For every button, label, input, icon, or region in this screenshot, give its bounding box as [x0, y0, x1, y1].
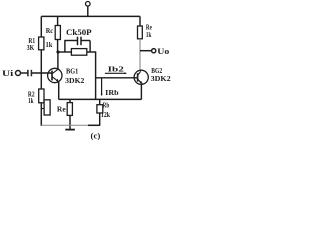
wire Rb bottom lead — [99, 113, 101, 125]
capacitor input left plate — [27, 70, 29, 77]
svg-text:Ib2: Ib2 — [108, 65, 124, 74]
svg-text:1k: 1k — [46, 40, 53, 49]
transistor BG2 — [134, 70, 148, 84]
svg-text:Uo: Uo — [157, 47, 169, 56]
wire right column (Re to BG2 collector, grey) — [139, 39, 141, 71]
wire capacitor branch right riser — [89, 41, 91, 53]
wire Ui to capacitor — [21, 72, 28, 74]
svg-text:Rc: Rc — [46, 26, 54, 35]
wire bottom rail right (dark) — [88, 124, 100, 126]
svg-text:3DK2: 3DK2 — [65, 76, 84, 85]
svg-text:(c): (c) — [91, 131, 101, 140]
svg-text:3DK2: 3DK2 — [151, 74, 171, 83]
wire Re top lead — [69, 99, 71, 102]
wire left column bottom (R2 to bottom rail) — [40, 103, 42, 126]
wire Re to ground — [69, 116, 71, 130]
node collector BG1 (junction dot) — [56, 50, 59, 53]
wire coupling resistor to out vertical — [87, 51, 96, 53]
wire capacitor left lead — [64, 40, 77, 42]
svg-text:1k: 1k — [146, 31, 151, 39]
current arrow Ib2 — [105, 72, 127, 74]
wire top supply rail — [41, 15, 140, 17]
capacitor input right plate — [30, 70, 32, 77]
wire Uo tap — [140, 50, 152, 52]
wire BG1 base lead — [32, 72, 52, 74]
wire Rc to collector node — [57, 39, 59, 52]
resistor ghost box (print artifact) — [44, 100, 50, 115]
svg-text:Ui: Ui — [2, 69, 14, 78]
resistor coupling (horizontal box) — [71, 49, 86, 56]
wire capacitor branch left riser — [64, 41, 66, 53]
svg-text:Ck50P: Ck50P — [66, 28, 92, 37]
wire coupling output drop (to BG2 base wire) — [95, 52, 97, 99]
wire left column middle (R1 to base node) — [40, 50, 42, 89]
transistor BG1 — [48, 68, 62, 82]
resistor Rb — [97, 105, 103, 113]
wire node to coupling network — [58, 51, 71, 53]
svg-text:Re: Re — [57, 104, 66, 113]
resistor Rc — [55, 26, 60, 40]
wire Rb top lead — [99, 99, 101, 104]
wire Rc column top — [57, 16, 59, 25]
wire left column top (rail to R1) — [40, 16, 42, 37]
resistor Re (right) — [138, 26, 143, 39]
current arrow IRb — [101, 79, 103, 97]
ground — [65, 129, 75, 131]
svg-text:BG1: BG1 — [66, 67, 78, 76]
wire BG1 emitter drop — [58, 82, 60, 100]
svg-text:Rb: Rb — [103, 101, 110, 110]
svg-text:IRb: IRb — [105, 88, 119, 97]
wire BG2 emitter drop — [140, 84, 142, 99]
capacitor Ck 50P left plate — [77, 37, 79, 46]
terminal Uo (circle) — [152, 49, 156, 53]
wire common emitter bus — [59, 98, 142, 100]
terminal Ui input (circle) — [16, 71, 21, 76]
wire supply terminal stem — [87, 6, 89, 17]
svg-text:1k: 1k — [28, 96, 34, 105]
wire BG2 base — [96, 77, 138, 79]
svg-text:3K: 3K — [27, 43, 35, 52]
wire capacitor right lead — [82, 40, 91, 42]
wire bottom rail (grey) — [41, 124, 88, 126]
wire right column top (rail to Re) — [139, 16, 141, 26]
wire ghost box tick (print artifact) — [41, 108, 44, 110]
terminal supply (top circle) — [86, 2, 91, 7]
resistor R1 — [39, 37, 44, 50]
svg-text:12k: 12k — [101, 110, 111, 119]
resistor R2 — [39, 89, 44, 103]
capacitor Ck 50P right plate — [80, 37, 82, 46]
wire BG1 collector — [57, 52, 59, 69]
resistor Re (emitter) — [67, 103, 72, 116]
